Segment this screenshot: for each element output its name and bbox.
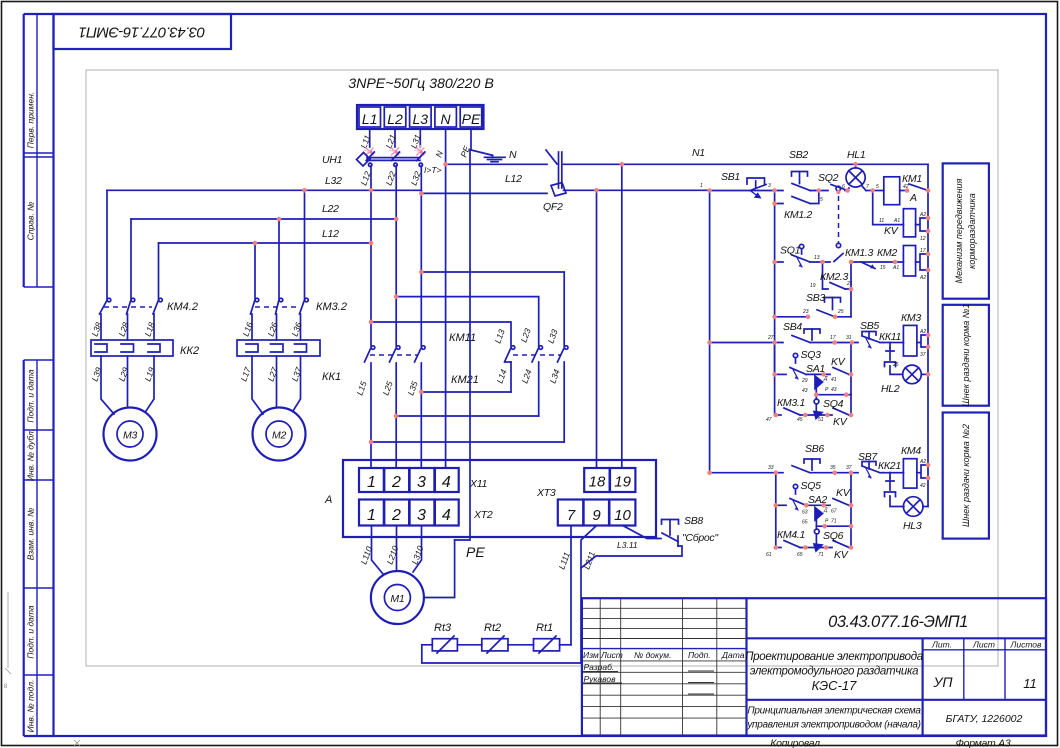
svg-text:Подп. и дата: Подп. и дата [26, 369, 36, 422]
svg-text:КК2: КК2 [180, 345, 199, 357]
svg-text:23: 23 [802, 309, 809, 315]
pushbutton SB5 (NC) [862, 332, 880, 349]
breaker pole blades [366, 152, 425, 167]
branch1 phase wire c [158, 243, 160, 299]
bypass wire pole3 to KM21 c [421, 272, 564, 346]
control right rail [927, 164, 929, 506]
svg-text:Rt2: Rt2 [484, 622, 501, 634]
svg-text:47: 47 [766, 417, 772, 423]
contactor aux contact KM1.3 [834, 254, 843, 262]
PE bus vertical [455, 150, 470, 540]
svg-text:43: 43 [802, 388, 808, 394]
junction dots of power circuit [253, 151, 624, 445]
svg-text:PE: PE [462, 111, 481, 127]
contactor coil KM3 [903, 325, 917, 356]
terminal cells 18 19 [584, 468, 635, 492]
selector block1 left vertical [774, 343, 776, 375]
terminal row XT2 [359, 500, 459, 526]
svg-text:КМ3.2: КМ3.2 [316, 301, 347, 313]
svg-text:SB2: SB2 [789, 149, 808, 161]
svg-text:А2: А2 [919, 275, 926, 281]
junction dots of control circuit [707, 162, 930, 550]
svg-text:L3.11: L3.11 [617, 540, 638, 550]
contactor aux contact KM2.3 [823, 289, 852, 317]
svg-text:КМ2.3: КМ2.3 [820, 271, 848, 283]
svg-text:9: 9 [592, 507, 601, 524]
svg-text:КМ21: КМ21 [451, 374, 479, 386]
motor M2 [253, 408, 306, 461]
svg-text:КМ1.2: КМ1.2 [784, 209, 812, 221]
pushbutton SB7 (NC) [862, 462, 880, 479]
svg-text:1: 1 [367, 474, 376, 491]
terminal cell N [435, 107, 457, 127]
bus L22 [131, 218, 396, 220]
svg-text:Перв. примен.: Перв. примен. [26, 92, 36, 149]
svg-text:Формат А3: Формат А3 [956, 738, 1011, 748]
wire drop to XT3 19 [621, 164, 623, 468]
branch3 phase verticals above KM11 [370, 190, 372, 346]
crossover wire KM21c to pole1 drop [371, 441, 564, 443]
svg-text:SB5: SB5 [860, 320, 879, 332]
thermistor Rt1 [534, 639, 560, 651]
left strip box Sprav No [24, 156, 54, 158]
svg-text:SB8: SB8 [684, 515, 703, 527]
svg-text:Изм: Изм [583, 650, 599, 660]
KV wire to rail fork [916, 218, 928, 231]
motor M1 leads [372, 526, 422, 575]
svg-text:Rt1: Rt1 [536, 622, 553, 634]
svg-text:25: 25 [837, 309, 844, 315]
wire N drop [445, 129, 447, 164]
wire N horizontal to QF2 [446, 163, 547, 165]
svg-text:3: 3 [417, 474, 426, 491]
title block scheme name cell [747, 699, 1047, 701]
svg-text:Шнек раздачи корма №2: Шнек раздачи корма №2 [961, 424, 971, 527]
limit switch SQ5 [790, 484, 806, 510]
contactor coil KM1 [884, 177, 900, 205]
terminal cells 7 9 10 [558, 500, 636, 526]
svg-text:Подп. и дата: Подп. и дата [26, 605, 36, 658]
crossover wire KM21b to pole2 drop [396, 415, 539, 417]
svg-text:Х11: Х11 [469, 478, 487, 490]
wire KM1 to rail with aux blade A [900, 190, 907, 192]
svg-text:18: 18 [589, 474, 606, 491]
svg-text:2: 2 [391, 474, 401, 491]
contactor aux contact KM1.2 (parallel) [775, 191, 819, 204]
svg-text:L2: L2 [387, 111, 403, 127]
selector switch SA1 [815, 376, 851, 411]
svg-text:А1: А1 [892, 265, 899, 271]
wire from XT3-9 down (L211) [422, 526, 597, 664]
svg-text:SQ1: SQ1 [780, 245, 800, 257]
svg-text:КК11: КК11 [879, 331, 901, 343]
svg-text:35: 35 [830, 465, 836, 471]
svg-text:HL1: HL1 [847, 149, 865, 161]
svg-text:KV: KV [834, 549, 849, 561]
svg-text:L1: L1 [362, 111, 378, 127]
wire L21 drop [394, 129, 396, 147]
rung KM4.1/SQ6 [776, 547, 781, 549]
svg-text:27: 27 [767, 335, 774, 341]
branch1 phase wire a [106, 190, 108, 299]
svg-text:М2: М2 [272, 430, 286, 442]
svg-text:1: 1 [367, 507, 376, 524]
svg-text:КМ4: КМ4 [901, 445, 921, 457]
PE bonding wire of M1 [424, 540, 455, 598]
svg-text:2: 2 [391, 507, 401, 524]
svg-text:электромодульного раздатчика: электромодульного раздатчика [750, 666, 918, 678]
wire Rt1 to L111 [560, 644, 571, 646]
rung 1 wire [710, 190, 783, 192]
svg-text:А2: А2 [919, 329, 926, 335]
svg-text:Лист: Лист [972, 640, 995, 650]
svg-text:Рукавов: Рукавов [584, 674, 617, 684]
bypass wire pole2 to KM21 b [396, 297, 539, 346]
top-left stamp box (rotated doc number) [54, 14, 232, 49]
wire L12 horizontal to QF2 [421, 192, 547, 194]
svg-text:17: 17 [830, 335, 836, 341]
pushbutton SB2 (NO) [792, 172, 811, 191]
contactor aux contact KM4.1 [784, 541, 800, 548]
title block doc number cell [747, 637, 1047, 639]
contactor KM4.2 contacts [100, 298, 163, 340]
branch2 phase wire b [278, 219, 280, 299]
rung SQ5/KV [776, 504, 786, 506]
wire PE drop [470, 129, 472, 150]
limit switch SQ1 [792, 244, 810, 267]
svg-text:Шнек раздачи корма №1: Шнек раздачи корма №1 [961, 303, 971, 406]
crossover wire KM21a to pole3 drop [421, 391, 511, 393]
contactor coil KM2 [903, 246, 915, 277]
thermal relay KK1 [237, 340, 320, 356]
svg-text:L12: L12 [505, 173, 522, 185]
selector block1 right vertical [850, 343, 852, 416]
title block lit/list/listov cells [921, 638, 923, 735]
branch2 phase wire c [304, 190, 306, 299]
wire N vertical down to XT cell 4 [445, 164, 447, 468]
svg-text:3: 3 [417, 507, 426, 524]
svg-text:А1: А1 [893, 218, 900, 224]
svg-text:43: 43 [831, 387, 837, 393]
svg-text:Взам. инв. №: Взам. инв. № [26, 508, 36, 561]
svg-text:51: 51 [818, 417, 824, 423]
svg-text:А: А [909, 192, 917, 204]
wire Rt2-Rt1 [508, 644, 534, 646]
svg-text:6: 6 [842, 184, 845, 190]
branch2 phase wire a [254, 243, 256, 299]
svg-text:11: 11 [879, 218, 884, 224]
title block outer box [582, 598, 1046, 735]
svg-text:БГАТУ, 1226002: БГАТУ, 1226002 [946, 713, 1023, 725]
lamp HL2 branch [885, 362, 929, 384]
control left rail [709, 190, 711, 472]
wire drop to XT3 18 [596, 190, 598, 468]
rung SQ3/KV [775, 373, 786, 375]
svg-text:71: 71 [818, 552, 824, 558]
title block revision-table row lines [582, 607, 747, 609]
motor M3 [104, 408, 157, 461]
selector switch SA2 [815, 508, 851, 544]
relay contact KV (rung5a) [833, 499, 849, 506]
wire L32 below breaker [420, 166, 422, 193]
svg-text:SB3: SB3 [806, 292, 825, 304]
svg-text:ХТ3: ХТ3 [536, 487, 556, 499]
contactor aux contact KM3.1 [784, 408, 800, 415]
svg-text:SB7: SB7 [858, 451, 878, 463]
svg-text:Д: Д [823, 376, 828, 382]
svg-text:KV: KV [831, 356, 846, 368]
svg-text:Принципиальная электрическая с: Принципиальная электрическая схема [747, 706, 921, 717]
svg-text:HL2: HL2 [881, 383, 900, 395]
left strip box Inv No dubl [24, 479, 54, 481]
svg-text:37: 37 [920, 352, 926, 358]
svg-text:QF2: QF2 [543, 201, 563, 213]
breaker release parallelogram [357, 153, 371, 167]
svg-text:15: 15 [880, 265, 886, 271]
motor M3 leads [101, 356, 154, 414]
svg-text:3NPE~50Гц 380/220 В: 3NPE~50Гц 380/220 В [348, 76, 494, 92]
relay contact KV (rung) [833, 368, 849, 375]
svg-text:№ докум.: № докум. [634, 650, 671, 660]
wire from XT3-7 down (L111) [570, 526, 572, 645]
svg-text:19: 19 [614, 474, 631, 491]
svg-text:М3: М3 [123, 430, 137, 442]
wire L12 below breaker [370, 166, 372, 190]
svg-text:Д: Д [823, 508, 828, 514]
svg-text:SQ3: SQ3 [801, 349, 822, 361]
svg-text:кормораздатчика: кормораздатчика [967, 193, 977, 269]
terminal row X11 [359, 468, 459, 492]
svg-text:Инв. № подл.: Инв. № подл. [26, 680, 36, 733]
svg-text:3: 3 [768, 183, 771, 189]
svg-text:ХТ2: ХТ2 [473, 509, 493, 521]
motor M1 [371, 571, 424, 624]
thermistor Rt3 [432, 639, 457, 651]
pushbutton SB6 (NO) [792, 459, 820, 473]
rung KM3.1/SQ4 [776, 414, 781, 416]
assembly box A [343, 460, 656, 537]
KM2 wire to rail fork [916, 254, 928, 270]
svg-text:37: 37 [846, 465, 852, 471]
limit switch SQ2 [831, 185, 848, 191]
svg-text:КК1: КК1 [322, 371, 341, 383]
svg-text:19: 19 [810, 283, 816, 289]
svg-text:Механизм передвижения: Механизм передвижения [954, 178, 964, 283]
PE diagonal to earth [471, 150, 493, 155]
svg-text:5: 5 [876, 184, 879, 190]
wire L11 drop [369, 129, 371, 147]
rung 4 wire [710, 342, 783, 344]
svg-text:65: 65 [797, 552, 803, 558]
svg-text:А2: А2 [919, 212, 926, 218]
KM4 wire to rail fork [917, 465, 928, 478]
svg-text:25: 25 [892, 362, 899, 368]
svg-text:7: 7 [866, 184, 869, 190]
svg-text:SQ5: SQ5 [801, 480, 822, 492]
svg-text:SQ4: SQ4 [823, 398, 844, 410]
svg-text:67: 67 [831, 509, 837, 515]
svg-text:Справ. №: Справ. № [26, 202, 36, 241]
svg-text:61: 61 [766, 552, 772, 558]
wire from XT3-10 to SB8 (L3.11) [623, 526, 658, 539]
svg-text:КМ4.1: КМ4.1 [777, 529, 805, 541]
pushbutton SB1 (NC) [747, 178, 766, 199]
svg-text:Листов: Листов [1010, 640, 1043, 650]
svg-text:SQ2: SQ2 [818, 172, 839, 184]
wire L12 after QF2 to control rail [564, 189, 710, 191]
title block main vertical divider [745, 598, 747, 735]
rung SB3 [775, 316, 808, 318]
right annotation box 2: auger 1 [943, 305, 989, 406]
thermal contact KK21 [883, 473, 903, 490]
terminal cell L3 [410, 107, 432, 127]
thermal relay KK2 [91, 340, 173, 356]
svg-text:71: 71 [831, 519, 837, 525]
svg-text:КК21: КК21 [878, 460, 901, 472]
svg-text:I>T>: I>T> [424, 165, 442, 175]
left margin strip columns [23, 14, 25, 287]
svg-text:РЕ: РЕ [466, 544, 485, 560]
svg-text:63: 63 [802, 510, 808, 516]
svg-text:Дата: Дата [721, 650, 745, 660]
svg-text:11: 11 [1023, 676, 1037, 691]
terminal cell PE [460, 107, 482, 127]
pushbutton SB4 (NO) [792, 329, 820, 343]
svg-text:"Сброс": "Сброс" [682, 532, 719, 544]
wire L22 below breaker [395, 166, 397, 219]
svg-text:КЭС-17: КЭС-17 [812, 678, 857, 693]
mechanical link SQ2-KM1.3 (dashed) [838, 196, 840, 243]
left strip box Vzam inv No [24, 587, 54, 589]
svg-text:UН1: UН1 [322, 154, 342, 166]
wire N1 after QF2 [564, 163, 929, 165]
svg-text:31: 31 [846, 335, 852, 341]
wire SB8 return to L211 [581, 546, 682, 568]
terminal cell L1 [359, 107, 381, 127]
branch1 phase wire b [130, 219, 132, 299]
svg-text:А2: А2 [919, 459, 926, 465]
pushbutton SB8 Reset [658, 520, 679, 547]
svg-text:КМ2: КМ2 [877, 247, 897, 259]
svg-text:SQ6: SQ6 [823, 530, 844, 542]
svg-text:А: А [324, 494, 332, 506]
svg-text:N: N [509, 149, 517, 161]
svg-text:SB4: SB4 [783, 321, 802, 333]
svg-text:29: 29 [801, 378, 808, 384]
left strip box Podp i data (lower) [24, 674, 54, 676]
svg-text:Копировал: Копировал [770, 738, 820, 748]
svg-text:4: 4 [442, 474, 451, 491]
switch QF2 [546, 150, 557, 164]
rung 5 wire [710, 472, 783, 474]
svg-text:L12: L12 [322, 228, 339, 240]
svg-text:KV: KV [833, 416, 848, 428]
wire Rt3-Rt2 [457, 644, 481, 646]
relay coil KV [903, 209, 915, 237]
limit switch SQ4 [814, 399, 849, 418]
svg-text:45: 45 [797, 417, 803, 423]
limit switch SQ3 [790, 353, 806, 379]
svg-text:41: 41 [831, 377, 837, 383]
thermistor Rt2 [482, 639, 508, 651]
limit switch SQ6 [814, 529, 849, 551]
svg-text:03.43.077.16-ЭМП1: 03.43.077.16-ЭМП1 [79, 24, 205, 41]
svg-text:L3: L3 [413, 111, 429, 127]
gray drawing canvas boundary [86, 70, 998, 666]
svg-text:HL3: HL3 [903, 520, 922, 532]
svg-text:Лист: Лист [600, 650, 623, 660]
svg-text:5: 5 [820, 197, 823, 203]
supply terminal strip outer box [357, 105, 484, 129]
KM3 wire to rail fork [917, 335, 928, 347]
svg-text:М1: М1 [390, 593, 404, 605]
svg-text:КМ3.1: КМ3.1 [777, 397, 805, 409]
title block revision-table column lines [599, 598, 601, 735]
svg-text:1: 1 [700, 183, 703, 189]
svg-text:КМ3: КМ3 [901, 312, 921, 324]
svg-text:SB1: SB1 [721, 171, 740, 183]
left strip box Perv. primen [24, 152, 54, 154]
svg-text:17: 17 [920, 248, 926, 254]
lamp HL1 [846, 164, 873, 190]
svg-text:10: 10 [614, 507, 631, 524]
svg-text:КМ11: КМ11 [449, 332, 476, 344]
circuit breaker UH1 (QF1) X contacts [366, 148, 425, 156]
svg-text:КМ1.3: КМ1.3 [845, 247, 873, 259]
breaker trip bar (double line) [367, 157, 420, 159]
svg-text:4: 4 [442, 507, 451, 524]
ground symbol [492, 155, 494, 157]
svg-text:21: 21 [846, 281, 853, 287]
svg-text:N1: N1 [692, 147, 705, 159]
svg-text:KV: KV [884, 225, 899, 237]
svg-text:Rt3: Rt3 [434, 622, 452, 634]
svg-text:65: 65 [802, 520, 808, 526]
svg-text:УП: УП [932, 674, 953, 690]
svg-text:Проектирование электропривода: Проектирование электропривода [745, 651, 923, 663]
right annotation box 3: auger 2 [943, 413, 989, 539]
svg-text:13: 13 [814, 255, 820, 261]
contactor coil KM4 [903, 459, 917, 488]
motor M2 leads [252, 356, 301, 414]
wire L31 drop [419, 129, 421, 147]
contactor KM11 contacts [365, 346, 426, 468]
svg-text:управления электроприводом (на: управления электроприводом (начала) [746, 720, 920, 731]
lamp HL3 branch [885, 492, 929, 516]
svg-text:7: 7 [567, 507, 576, 524]
svg-text:SB6: SB6 [805, 443, 824, 455]
thermal contact KK11 [883, 343, 903, 361]
svg-text:03.43.077.16-ЭМП1: 03.43.077.16-ЭМП1 [828, 613, 968, 631]
bus L12b [159, 242, 372, 244]
svg-text:42: 42 [920, 483, 926, 489]
svg-text:33: 33 [768, 465, 774, 471]
contactor KM21 contacts [505, 346, 569, 442]
selector block2 right vertical [850, 473, 852, 548]
main control vertical [774, 191, 776, 416]
svg-text:12: 12 [920, 236, 926, 242]
branch KM2.3 from rung2 [822, 262, 824, 289]
svg-text:Инв. № дубл.: Инв. № дубл. [26, 429, 36, 481]
svg-text:Лит.: Лит. [931, 640, 952, 650]
contactor KM3.2 contacts [251, 298, 309, 340]
bus L32 [107, 189, 421, 191]
svg-text:KV: KV [836, 487, 851, 499]
svg-text:L32: L32 [325, 175, 342, 187]
left strip box Podp i data (upper) [24, 359, 54, 361]
svg-text:Подп.: Подп. [688, 650, 711, 660]
svg-text:Разраб.: Разраб. [584, 662, 615, 672]
